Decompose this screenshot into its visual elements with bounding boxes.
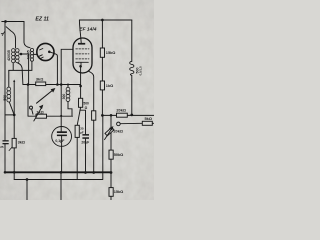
choke Dr lead bbox=[8, 70, 10, 87]
wire bbox=[110, 159, 112, 172]
wire stub vertical bbox=[13, 81, 15, 115]
node bus7 bbox=[26, 178, 29, 181]
resistor 3k bbox=[36, 82, 46, 86]
choke Dr bbox=[7, 87, 11, 102]
node bus4 bbox=[84, 171, 87, 174]
node mains junction bbox=[4, 20, 7, 23]
svg-text:20µF: 20µF bbox=[81, 141, 89, 145]
wire left middle bbox=[5, 114, 14, 116]
node a bbox=[27, 83, 30, 86]
wire bbox=[110, 173, 112, 201]
svg-text:500: 500 bbox=[3, 95, 7, 101]
tube EF14 bbox=[73, 38, 92, 73]
svg-text:20kΩ: 20kΩ bbox=[113, 129, 123, 134]
wire mains right drop bbox=[24, 22, 30, 48]
svg-text:4/0,95: 4/0,95 bbox=[27, 50, 31, 60]
resistor 3k left bbox=[12, 138, 16, 148]
wire bbox=[93, 120, 95, 172]
potentiometer arrow bbox=[105, 128, 113, 139]
wiper terminal bbox=[117, 122, 121, 126]
node stub top bbox=[13, 80, 15, 83]
resistor 1k bbox=[100, 81, 104, 90]
resistor 50k bbox=[109, 150, 113, 159]
wire winding bottoms bbox=[9, 61, 32, 70]
svg-text:EF 14/4: EF 14/4 bbox=[79, 26, 96, 32]
capacitor 20u branch bbox=[80, 110, 86, 134]
wire wiper bbox=[120, 122, 142, 124]
resistor 15k bottom bbox=[109, 188, 113, 197]
EZ11 pins bbox=[39, 49, 43, 59]
svg-text:500: 500 bbox=[83, 101, 89, 105]
svg-text:15kΩ: 15kΩ bbox=[114, 189, 124, 194]
svg-text:42/035: 42/035 bbox=[7, 50, 11, 61]
EF14 anode bbox=[78, 43, 85, 45]
svg-text:Ω: Ω bbox=[85, 106, 88, 110]
resistor 1k preset bbox=[36, 114, 47, 118]
resistor 20k bbox=[117, 113, 128, 117]
node choke join bbox=[13, 114, 16, 117]
node bus6 bbox=[110, 171, 113, 174]
wire grid left bbox=[61, 49, 73, 84]
dropper serpentine 500 bbox=[130, 61, 134, 75]
wire pot branch bbox=[110, 115, 112, 150]
wire bbox=[131, 76, 133, 115]
svg-text:0,1µF: 0,1µF bbox=[55, 139, 65, 143]
terminal circle bbox=[30, 106, 33, 109]
wire lower bus bbox=[14, 115, 103, 179]
node f bbox=[101, 114, 104, 117]
coil 300 bbox=[67, 83, 69, 85]
capacitor 25 left bbox=[3, 140, 9, 141]
wire top HT bbox=[79, 19, 131, 21]
wire choke bottom bbox=[9, 102, 14, 115]
arrow variable 3k bbox=[37, 89, 55, 103]
transformer T1 winding a bbox=[12, 49, 16, 63]
wire HT horizontal bbox=[23, 84, 81, 86]
svg-text:3kΩ: 3kΩ bbox=[36, 77, 43, 82]
wire cathode down bbox=[80, 67, 82, 98]
wire secondary bottom bbox=[18, 63, 23, 85]
svg-text:3kΩ: 3kΩ bbox=[18, 140, 25, 145]
svg-text:5kΩ: 5kΩ bbox=[145, 116, 152, 121]
bus wire ground bbox=[5, 171, 111, 173]
svg-text:1kΩ: 1kΩ bbox=[106, 83, 113, 88]
node bus1 bbox=[4, 171, 7, 174]
capacitor 0.1u circle bbox=[52, 126, 72, 146]
node bus3 bbox=[60, 171, 63, 174]
wire EZ11 cathode out bbox=[54, 54, 57, 85]
svg-text:µF: µF bbox=[80, 131, 84, 135]
node center tap bbox=[20, 53, 23, 56]
node bus5 bbox=[92, 171, 95, 174]
transformer T1 heater winding bbox=[30, 48, 33, 61]
node d bbox=[79, 85, 82, 88]
resistor 5k bbox=[142, 121, 152, 125]
node g bbox=[110, 114, 113, 117]
wire 1k row bbox=[28, 85, 73, 117]
svg-text:0,5/1,5: 0,5/1,5 bbox=[139, 66, 143, 76]
AC mark bbox=[1, 32, 4, 36]
wire left vertical lower bbox=[4, 144, 6, 172]
svg-text:15kΩ: 15kΩ bbox=[106, 50, 116, 55]
transformer T1 primary lead bbox=[6, 27, 15, 48]
EF14 cathode bbox=[76, 62, 89, 65]
arrow small left bbox=[9, 146, 13, 151]
svg-text:1kΩ: 1kΩ bbox=[36, 109, 43, 114]
resistor 500 cathode bbox=[79, 98, 83, 107]
dropper line bbox=[131, 20, 133, 61]
transformer T1 winding b bbox=[15, 49, 19, 63]
potentiometer 20k body bbox=[105, 127, 114, 136]
resistor chain line bbox=[101, 20, 103, 115]
node e bbox=[60, 115, 62, 117]
screen line bbox=[89, 71, 94, 111]
wire left vertical bbox=[4, 22, 6, 141]
resistor 0.5M bbox=[75, 125, 79, 137]
node top bbox=[101, 19, 104, 22]
wire anode up bbox=[79, 20, 81, 43]
node h bbox=[130, 114, 133, 117]
wire bbox=[76, 137, 78, 179]
wire mid right bbox=[102, 114, 154, 116]
resistor 15k bbox=[100, 48, 104, 57]
wire bbox=[26, 180, 28, 201]
wire cathode slant bbox=[77, 107, 80, 125]
tube EZ11 bbox=[37, 43, 54, 60]
wire center tap bbox=[21, 54, 29, 85]
wire EZ11 heater stub bbox=[34, 53, 37, 55]
node b bbox=[56, 83, 59, 86]
svg-text:20kΩ: 20kΩ bbox=[116, 107, 126, 112]
EF14 grids bbox=[76, 49, 89, 59]
wire left branch down bbox=[13, 115, 15, 138]
svg-text:50kΩ: 50kΩ bbox=[114, 152, 124, 157]
svg-text:300: 300 bbox=[62, 94, 66, 100]
svg-text:EZ 11: EZ 11 bbox=[35, 16, 49, 22]
wire bbox=[13, 148, 15, 180]
svg-text:25: 25 bbox=[0, 145, 4, 149]
wire mains top bbox=[2, 21, 24, 23]
arrow preset 1k bbox=[34, 107, 42, 122]
node c bbox=[60, 83, 63, 86]
node bus2 bbox=[13, 171, 16, 174]
resistor screen bbox=[92, 111, 96, 120]
